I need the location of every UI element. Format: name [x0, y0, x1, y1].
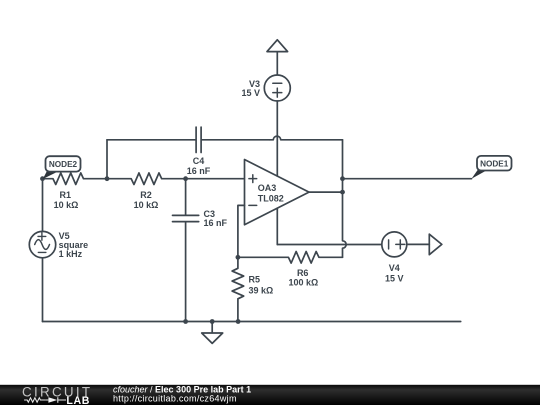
wire: op-amp V- pin down — [276, 208, 278, 244]
junction dot: NODE2 node — [40, 176, 45, 181]
junction dot: output riser / NODE1 — [340, 176, 345, 181]
svg-text:100 kΩ: 100 kΩ — [289, 278, 319, 288]
svg-text:1 kHz: 1 kHz — [59, 249, 83, 259]
junction dot: inverting node R5/R6 — [236, 255, 241, 260]
op-amp OA3 triangle — [245, 160, 310, 225]
svg-text:R1: R1 — [60, 190, 72, 200]
wire: feedback riser — [106, 140, 108, 179]
svg-text:16 nF: 16 nF — [204, 218, 228, 228]
junction dot: C3 / rail — [183, 319, 188, 324]
wire: op-amp output to riser — [309, 191, 343, 193]
wire: output riser with hop over supply wire — [343, 140, 347, 257]
node flag NODE2 — [43, 156, 81, 179]
wire: op-amp inverting input — [238, 205, 245, 257]
resistor R2 — [107, 173, 186, 185]
svg-text:10 kΩ: 10 kΩ — [134, 200, 159, 210]
svg-text:TL082: TL082 — [258, 194, 284, 204]
junction dot: output riser / op-amp output — [340, 190, 345, 195]
voltage source V4 — [382, 232, 407, 257]
wire: V- rail to V4 — [277, 244, 382, 246]
svg-text:10 kΩ: 10 kΩ — [54, 200, 79, 210]
wire: V3 to op-amp V+ pin — [276, 101, 278, 176]
svg-text:V4: V4 — [389, 263, 400, 273]
wire: output to NODE1 — [343, 178, 472, 180]
svg-text:R6: R6 — [297, 268, 309, 278]
svg-text:R5: R5 — [249, 274, 261, 284]
capacitor C3 — [173, 179, 199, 322]
svg-text:15 V: 15 V — [241, 88, 260, 98]
svg-text:C4: C4 — [193, 156, 205, 166]
wire: V5 bottom to ground rail — [42, 258, 44, 322]
svg-text:NODE2: NODE2 — [49, 160, 78, 169]
voltage source V3 — [264, 75, 290, 101]
resistor R1 — [43, 173, 108, 185]
resistor R5 — [232, 257, 244, 321]
svg-text:16 nF: 16 nF — [187, 166, 211, 176]
resistor R6 — [238, 252, 343, 264]
junction dot: R1/R2/C4 riser — [105, 176, 110, 181]
power flag ground (top, rotated up) — [267, 40, 288, 75]
node flag NODE1 — [472, 156, 512, 179]
svg-text:NODE1: NODE1 — [480, 159, 509, 168]
ground symbol (bottom) — [202, 322, 223, 344]
svg-text:R2: R2 — [140, 190, 152, 200]
svg-text:OA3: OA3 — [258, 183, 277, 193]
svg-text:39 kΩ: 39 kΩ — [249, 285, 274, 295]
svg-text:LAB: LAB — [66, 395, 90, 405]
wire: ground rail — [43, 321, 461, 323]
footer bar — [0, 385, 540, 405]
svg-text:http://circuitlab.com/cz64wjm: http://circuitlab.com/cz64wjm — [113, 394, 237, 404]
ground flag (right, rotated) — [429, 234, 442, 255]
wire: feedback top hops over V+ supply — [270, 136, 343, 140]
capacitor C4 — [107, 127, 270, 152]
junction dot: R5 / rail — [236, 319, 241, 324]
op-amp - input symbol — [249, 204, 257, 206]
voltage source V5 — [29, 231, 55, 257]
wire: R2 to op-amp + input — [186, 178, 245, 180]
svg-text:15 V: 15 V — [385, 274, 404, 284]
CircuitLab logo resistor+diode symbol — [24, 397, 66, 402]
wire: V5 top to NODE2 node — [42, 179, 44, 232]
wire: V4 to right ground flag — [407, 243, 430, 245]
op-amp + input symbol — [249, 175, 257, 183]
junction dot: R2/C3/op-amp — [183, 176, 188, 181]
junction dot: ground / rail — [210, 319, 215, 324]
